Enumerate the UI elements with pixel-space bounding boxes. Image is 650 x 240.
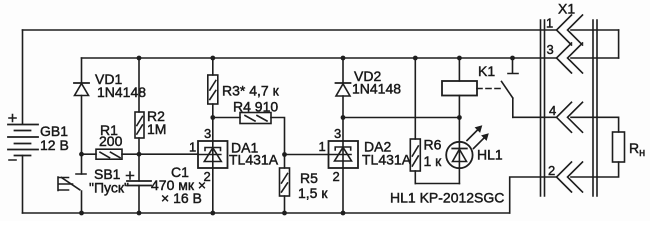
svg-text:12 В: 12 В xyxy=(40,137,69,153)
svg-text:3: 3 xyxy=(334,126,341,141)
node ground R5 xyxy=(282,211,287,216)
wire top rail xyxy=(23,29,619,31)
node K1 HL1 xyxy=(457,115,462,120)
wire second rail xyxy=(82,57,619,59)
node VD2 DA2 xyxy=(341,115,346,120)
node R2 C1 xyxy=(137,152,142,157)
node rail R3 xyxy=(210,56,215,61)
wire node row VD2 to K1 xyxy=(343,117,459,119)
wire ref row to DA2 xyxy=(285,154,329,156)
svg-text:TL431A: TL431A xyxy=(229,152,279,168)
node ground SB1 xyxy=(79,211,84,216)
svg-text:1M: 1M xyxy=(147,121,166,137)
svg-text:1 к: 1 к xyxy=(424,153,443,169)
node ground DA1 xyxy=(210,211,215,216)
svg-text:R6: R6 xyxy=(424,137,442,153)
svg-text:4: 4 xyxy=(549,103,556,118)
connector pin 3 xyxy=(547,42,583,73)
connector X1 columns xyxy=(541,1,598,197)
connector pin 2 xyxy=(548,162,583,192)
diode VD1 xyxy=(74,58,146,174)
svg-text:X1: X1 xyxy=(558,1,575,17)
svg-text:2: 2 xyxy=(333,169,340,184)
node R4 R5 xyxy=(282,152,287,157)
wire DA2 anode xyxy=(342,168,344,213)
resistor Rн load xyxy=(613,132,646,162)
diode VD2 xyxy=(336,58,402,118)
svg-text:TL431A: TL431A xyxy=(362,152,412,168)
connector pin 4 xyxy=(549,102,583,132)
pushbutton SB1 "Пуск" xyxy=(58,166,129,213)
battery GB1 xyxy=(8,115,69,161)
node rail R2 xyxy=(137,56,142,61)
svg-text:"Пуск": "Пуск" xyxy=(89,180,129,196)
svg-text:1N4148: 1N4148 xyxy=(352,81,401,97)
svg-text:2: 2 xyxy=(204,169,211,184)
capacitor C1 xyxy=(127,154,207,213)
wire DA1 anode xyxy=(212,168,214,213)
resistor R1 xyxy=(82,122,140,159)
wire bottom rail xyxy=(23,212,510,214)
LED HL1 xyxy=(446,118,503,184)
svg-text:× 16 В: × 16 В xyxy=(161,190,202,206)
svg-text:K1: K1 xyxy=(478,63,495,79)
wire left battery branch xyxy=(22,30,24,213)
svg-text:3: 3 xyxy=(547,42,554,57)
svg-text:1,5 к: 1,5 к xyxy=(298,185,328,201)
resistor R3 xyxy=(208,58,280,141)
node R3 R4 xyxy=(210,115,215,120)
node ground C1 xyxy=(137,211,142,216)
relay coil K1 xyxy=(442,58,502,118)
node ground DA2 xyxy=(341,211,346,216)
svg-text:R5: R5 xyxy=(300,170,318,186)
node rail R6 xyxy=(413,56,418,61)
resistor R4 xyxy=(213,99,285,155)
svg-text:HL1 KP-2012SGC: HL1 KP-2012SGC xyxy=(390,190,504,206)
resistor R5 xyxy=(280,154,329,213)
svg-text:2: 2 xyxy=(548,163,555,178)
resistor R2 xyxy=(135,58,166,154)
wire jumper pins 1-3 xyxy=(618,30,620,58)
connector pin 1 xyxy=(546,15,583,45)
svg-text:R4 910: R4 910 xyxy=(233,99,278,115)
node rail contact xyxy=(510,56,515,61)
svg-text:1: 1 xyxy=(189,140,196,155)
op-amp U DA1 TL431A xyxy=(189,126,279,184)
svg-text:HL1: HL1 xyxy=(477,147,503,163)
wire contact to connector pin4 xyxy=(513,117,619,132)
svg-text:1: 1 xyxy=(319,139,326,154)
svg-text:1: 1 xyxy=(546,16,553,31)
wire R6 HL1 join xyxy=(415,183,459,185)
wire DA2 pin3 xyxy=(342,118,344,142)
node VD1 R1 xyxy=(79,152,84,157)
wire bottom step to pin2 xyxy=(510,162,619,213)
wire node row to DA1 xyxy=(139,153,198,155)
op-amp U DA2 TL431A xyxy=(319,126,412,184)
svg-text:R3* 4,7 к: R3* 4,7 к xyxy=(222,83,280,99)
relay contact K1.1 xyxy=(502,58,519,117)
svg-text:200: 200 xyxy=(99,133,123,149)
node rail VD2 xyxy=(341,56,346,61)
svg-text:3: 3 xyxy=(204,126,211,141)
node rail K1 xyxy=(457,56,462,61)
resistor R6 xyxy=(410,58,442,184)
